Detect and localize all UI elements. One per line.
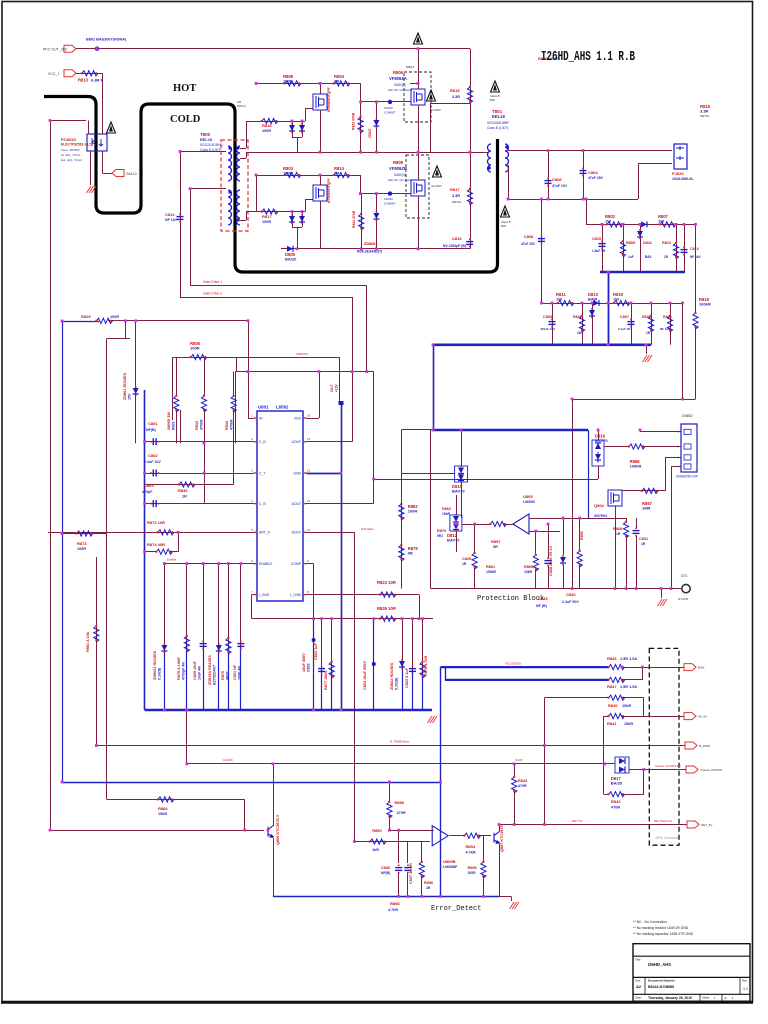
wire VCC_1 drop to optocoupler [102,73,104,134]
resistor R830 [179,482,195,487]
resistor R874 [157,549,173,554]
svg-text:KF5N50F/FQPF: KF5N50F/FQPF [327,87,331,112]
svg-text:15V: 15V [127,393,131,400]
wire T800 sec bottom pin link [238,220,246,222]
capacitor C809 hang [552,303,554,345]
svg-text:2.2R: 2.2R [551,57,559,61]
wire COMP pin [307,563,314,565]
svg-text:BZT52C4V7: BZT52C4V7 [212,665,216,685]
svg-text:I_GND: I_GND [259,593,270,597]
wire aux drop right to blue [339,357,341,401]
svg-text:0R: 0R [408,551,413,556]
resistor R881 [94,626,99,642]
resistor R814 [334,172,350,177]
warning triangle above dashed box [414,33,423,44]
blue VCC riser right [440,667,442,782]
svg-text:SA50(3): SA50(3) [394,83,406,87]
capacitor C803 pin4 [145,503,254,505]
svg-text:ZD808: ZD808 [364,242,375,246]
transistor Q807 [494,832,499,844]
diodes D801/D802 [292,121,294,137]
svg-text:C816: C816 [452,236,462,241]
wire R873 row [62,533,107,535]
wire row1 right corner down [695,224,697,313]
svg-text:HOT: HOT [173,83,196,94]
svg-text:1W: 1W [613,297,619,302]
svg-text:PJ020: PJ020 [672,171,684,176]
svg-text:R861: R861 [486,565,495,569]
wire ROUT pin feedback [307,503,374,505]
dual diode D817 [605,763,615,765]
resistor R819 [614,300,630,305]
dual diode D812 [450,515,462,531]
op-amp U805 (comparator) [513,514,529,534]
ferrite bead on gate [388,100,392,104]
blue bus drop to protection [433,345,435,430]
svg-text:AOUT: AOUT [292,440,301,444]
blue link bus1 to bus2 [608,272,610,345]
svg-text:10kR: 10kR [624,722,633,726]
svg-text:L_GND: L_GND [290,593,302,597]
svg-text:R813: R813 [662,241,671,245]
blue supply rows to B/5V [441,666,610,668]
svg-text:R804: R804 [538,56,548,61]
svg-text:SA50(3): SA50(3) [394,173,406,177]
svg-text:470R: 470R [611,806,620,810]
svg-text:OnOFF: OnOFF [223,758,233,762]
svg-text:R822 47kR: R822 47kR [352,112,356,130]
svg-text:10kR: 10kR [524,570,533,574]
svg-text:600mA: 600mA [237,104,246,108]
warning triangle upper [427,90,436,101]
ground protection [661,589,663,598]
resistor R841 row [604,716,609,718]
svg-text:DET_5V: DET_5V [701,823,712,827]
resistor R818 hang [670,303,672,345]
wire T801 secondary return [508,165,510,199]
svg-text:R894: R894 [466,844,476,849]
ground bus row1 (blue) [600,271,685,274]
svg-text:C3M08T: C3M08T [384,202,396,206]
svg-text:C807: C807 [620,315,629,319]
wire AOUT pin [307,441,353,443]
MOSFET Q803 [313,185,327,201]
svg-text:R884: R884 [158,806,168,811]
resistor R877 hang [331,619,333,669]
svg-text:R865: R865 [524,565,533,569]
dual diode D816b top [592,440,604,466]
capacitor C806 [548,151,550,199]
svg-text:** No marking capacitor 1608 X: ** No marking capacitor 1608 X7R GND [633,932,694,936]
wire upper gate row [246,121,305,123]
resistor R858 [472,553,477,569]
svg-text:BAV70: BAV70 [595,438,608,443]
connector pin B/5V [684,664,696,671]
svg-text:AOUT: AOUT [292,502,301,506]
svg-text:C828 2200 V5.1V: C828 2200 V5.1V [549,546,553,576]
svg-text:R833: R833 [195,421,199,430]
wire junctions [96,47,99,50]
svg-text:ZD822 RD15ES: ZD822 RD15ES [390,662,394,690]
svg-text:100R: 100R [283,79,293,84]
resistor R878 hang [422,619,424,669]
IC ground bus (blue) [145,709,432,712]
svg-text:100P 4R: 100P 4R [237,666,241,680]
svg-text:5.1V(B): 5.1V(B) [157,667,161,680]
zener ZD807 gate clamp [376,102,378,152]
svg-text:Error_Detect: Error_Detect [431,905,481,913]
resistor R820 hang [651,303,653,345]
svg-text:Rev: Rev [742,979,748,983]
svg-text:1R: 1R [616,532,621,536]
resistor R890 [370,839,386,844]
svg-text:GND: GND [293,471,301,475]
svg-text:R890: R890 [372,828,382,833]
svg-text:2N7002: 2N7002 [594,514,607,518]
svg-text:LM358P: LM358P [443,865,458,869]
svg-text:IN: IN [259,416,263,420]
svg-text:4.7kR: 4.7kR [388,908,398,912]
resistor R873 [77,531,93,536]
resistor R816 [262,118,278,123]
resistor R895 [481,862,486,878]
wire CN pin4 drop [671,467,673,589]
wire blue long vertical left [62,321,64,782]
wire right bottom link [572,399,696,401]
svg-text:R846: R846 [607,656,617,661]
svg-text:1MR: 1MR [642,506,651,511]
svg-text:Q807 KTC3875: Q807 KTC3875 [500,825,504,852]
svg-text:Enable: Enable [167,558,177,562]
wire Q802 drain to PFC rail [418,49,420,89]
svg-text:BA/28: BA/28 [611,781,623,786]
svg-text:R898: R898 [390,901,400,906]
capacitor C831 drop [636,518,638,528]
svg-text:C8040: C8040 [384,106,393,110]
svg-text:C833: C833 [538,596,548,601]
svg-text:R815: R815 [450,88,460,93]
svg-text:EEL16: EEL16 [200,137,213,142]
svg-text:R875 A 10kR: R875 A 10kR [177,657,181,680]
svg-text:COLD: COLD [170,114,201,125]
wire regulator row1 [586,224,696,226]
wire T801 primary left bottom [470,121,472,152]
error detect gnd bus (blue) [273,896,499,898]
svg-text:2.2uF 10V: 2.2uF 10V [144,460,161,464]
wire D816 mid to resistor R866 [604,446,630,448]
svg-text:C3M08T: C3M08T [384,111,396,115]
svg-text:AV_5V: AV_5V [698,715,707,719]
svg-text:470kR: 470kR [229,419,233,430]
wire T801 primary rail [246,152,488,154]
capacitor C836 drop [398,830,400,863]
svg-text:10: 10 [307,528,311,532]
svg-text:VF806ZB: VF806ZB [389,166,407,171]
wire upper rail corner to gate feed [360,83,362,102]
svg-text:R840: R840 [608,703,618,708]
svg-text:R_PWM(3kxx): R_PWM(3kxx) [390,740,409,744]
warning triangle near opto [107,122,116,133]
dual diode D816 [401,473,454,475]
svg-text:R805: R805 [626,241,635,245]
svg-text:1R: 1R [182,495,187,499]
wire PFC vertical drop [470,49,472,153]
svg-text:R895: R895 [468,866,477,870]
svg-text:3.3R: 3.3R [452,194,460,198]
ground stub row2 [646,345,648,354]
connector pin B_PWM [685,742,697,749]
wire left rail resistor chain joins [125,321,127,339]
svg-text:R842: R842 [611,799,621,804]
wire blue bus right drop [588,430,590,518]
wire GND blue to bus [307,473,342,475]
svg-text:47uF 25V: 47uF 25V [588,176,604,180]
terminal GT1 [668,588,681,590]
svg-text:B/5V: B/5V [698,666,705,670]
svg-text:+12V: +12V [335,384,339,392]
wire T801 left lower [430,103,470,105]
svg-text:R830: R830 [178,488,188,493]
capacitor C823 hang [321,619,323,670]
resistor R840 [609,695,625,700]
resistor R813 [82,71,98,76]
resistor R811 [558,300,574,305]
svg-text:R829: R829 [81,314,91,319]
resistor R894 [465,833,481,838]
svg-text:0R: 0R [493,545,498,549]
svg-text:6.8R F: 6.8R F [91,78,104,83]
diode D810 [641,221,647,227]
wire lower drain rail [256,175,360,177]
wire opamp inputs [529,518,618,520]
wire PFC drop joins rails [470,121,472,249]
ground protection block [658,599,668,606]
diode D813 [593,300,599,306]
svg-text:160kR: 160kR [699,302,711,307]
svg-text:EEL19: EEL19 [492,114,505,119]
lower second MOSFET Q804 [411,180,425,196]
wire aux supply row [173,357,340,359]
svg-text:10uF 450V: 10uF 450V [302,653,306,672]
op-amp U805B [432,826,448,846]
svg-text:LM393: LM393 [523,500,535,504]
svg-text:C820 10uF: C820 10uF [193,660,197,680]
svg-text:METAL: METAL [452,200,462,204]
svg-text:BN44-DCBBB: BN44-DCBBB [648,984,674,989]
svg-text:GT1: GT1 [681,574,687,578]
svg-text:100R: 100R [468,871,477,875]
HOT/COLD isolation barrier thick line [44,97,498,273]
wire opto emitter to ground [90,151,92,185]
resistor R806b [191,355,207,360]
resistor R823 [380,592,396,597]
wire I_GND right row [307,594,420,596]
svg-text:4R87: 4R87 [225,671,229,680]
svg-text:1R: 1R [664,255,669,259]
dashed box upper SMD pair [404,72,431,122]
zener ZD806 drop [563,518,565,555]
transformer T800 right coil [237,146,240,181]
title block [633,944,750,1002]
capacitor C807 hang [631,303,633,345]
svg-text:NF 1kV: NF 1kV [165,218,178,222]
wire Q802 source [418,105,420,152]
svg-text:0.1uF 4R: 0.1uF 4R [618,327,631,331]
wire R873 net drop [96,557,98,746]
capacitor C801 pin2 [145,441,254,443]
wire Q803 source to return rail [320,201,322,249]
svg-text:VDD: VDD [294,416,302,420]
svg-text:R886: R886 [394,800,404,805]
ground opto [87,186,97,193]
wire I_GND left drop [252,594,254,596]
resistor R846 [609,665,625,670]
capacitor C815 hang [602,224,604,272]
capacitor C819 hang [684,224,686,272]
svg-text:3.3R: 3.3R [452,95,460,99]
transformer T800 dashed box [221,140,248,231]
wire Q804 gate feed [360,193,411,195]
svg-text:Inverter ON/OFF: Inverter ON/OFF [700,768,723,772]
svg-text:U805: U805 [523,494,533,499]
resistor R807 [660,222,676,227]
resistor R805 hang [623,224,625,272]
diodes D803/D804 [292,212,294,227]
resistor R858 drop [474,524,476,552]
resistor R822 divider vertical [360,102,362,152]
svg-text:470R: 470R [518,784,527,788]
svg-text:12: 12 [307,469,311,473]
svg-text:R879: R879 [437,529,446,533]
svg-text:470kR: 470kR [199,419,203,430]
wire lower row [252,618,433,620]
resistor R802 [607,222,623,227]
wire Q805 drain chain [622,490,665,492]
zener ZD801 [135,321,137,388]
svg-text:R824 47kR: R824 47kR [352,210,356,228]
svg-text:R873: R873 [77,541,87,546]
warning triangle lower [433,166,442,177]
wire R841 feed vertical [603,716,605,794]
svg-text:R816: R816 [262,123,272,128]
resistor R829 [97,318,113,323]
resistor R875 hang [186,564,188,643]
connector VCC_1 [64,70,76,77]
svg-text:METAL: METAL [700,114,710,118]
svg-text:SMAW250-04P: SMAW250-04P [676,475,698,479]
svg-text:** No marking resistor 1608 1R: ** No marking resistor 1608 1R GND [633,926,689,930]
32pin connector dashed box [649,648,679,845]
svg-text:100R: 100R [190,346,200,351]
svg-text:NF(B): NF(B) [381,871,390,875]
resistor R823b divider vertical [361,194,363,249]
transformer T801 left coil [488,144,491,172]
ground error detect [499,896,511,898]
svg-text:Date:: Date: [635,996,642,1000]
svg-text:100R: 100R [262,129,271,133]
svg-text:C819: C819 [690,247,699,251]
resistor R847 [609,677,625,682]
svg-text:C831: C831 [639,537,648,541]
zener ZD808 gate clamp [376,194,378,249]
wire Q807 emitter [499,844,501,897]
resistor R886 from VCC to plus input [389,782,391,802]
wire gate row to Q803 gate [305,200,307,212]
svg-text:** NC - No Connection: ** NC - No Connection [633,920,667,924]
svg-text:1.5uF 4R: 1.5uF 4R [592,249,606,253]
resistor R815 on PFC drop [467,87,472,103]
resistor R808 [285,81,301,86]
diode D814 hang [592,303,594,345]
svg-text:100kR: 100kR [630,464,642,469]
svg-text:4700pF 4R: 4700pF 4R [181,662,185,680]
wire Q801 source to primary rail [320,110,322,152]
svg-text:Soft Start: Soft Start [361,527,374,531]
svg-text:U805B: U805B [443,859,456,864]
svg-text:R857: R857 [491,539,501,544]
svg-text:C823 1uF: C823 1uF [314,642,318,660]
svg-text:Class B (130T): Class B (130T) [487,126,508,130]
svg-text:Sheet: Sheet [702,996,710,1000]
svg-text:1.1: 1.1 [743,987,748,991]
svg-text:R896: R896 [424,881,433,885]
svg-text:32Pin Connector: 32Pin Connector [655,836,680,840]
svg-text:DET 5V(2.5v): DET 5V(2.5v) [654,819,672,823]
svg-text:C829: C829 [462,557,471,561]
ground error detect [510,902,520,909]
resistor R804 [334,81,350,86]
resistor R821 hang [582,303,584,345]
blue vertical center [341,404,343,710]
svg-text:3900R 3W: 3900R 3W [167,412,171,430]
resistor R812 hang [676,224,678,272]
svg-text:R806: R806 [393,70,404,75]
resistor R830 row [145,484,234,486]
svg-text:C825 0.1uF: C825 0.1uF [405,667,409,688]
svg-text:B801 BAS3007(NONA): B801 BAS3007(NONA) [86,38,127,42]
wire gate drive 1 row [190,285,367,287]
capacitor C837 drop [407,842,409,863]
svg-text:R878 4.7kR: R878 4.7kR [424,655,428,676]
wire OnOff row [187,763,605,765]
capacitor C808 feed vertical [541,199,543,303]
svg-text:BAV70: BAV70 [452,489,465,494]
svg-text:C_B: C_B [259,502,266,506]
wire opamp output [450,835,466,837]
wire gate drive feed vertical 2 [190,189,192,286]
svg-text:Iav/100V: Iav/100V [430,108,441,112]
svg-text:R826 10R: R826 10R [377,606,396,611]
wire Q802 gate feed [361,101,411,103]
svg-text:100kR: 100kR [486,570,497,574]
MOSFET Q805 [608,490,622,506]
svg-text:3.3R: 3.3R [700,109,709,114]
capacitor C822 hang row618 [313,619,315,710]
svg-text:R877 10kR: R877 10kR [324,671,328,690]
wire drop to protection block [572,399,574,589]
svg-text:5.1V(B): 5.1V(B) [394,677,398,690]
svg-text:Gate Drive 2: Gate Drive 2 [203,292,222,296]
resistor R859 [577,551,582,567]
capacitor C814 on gate drive 1 [177,216,184,218]
svg-text:1R: 1R [462,562,467,566]
resistor R803 [285,172,301,177]
wire lower rail corner to gate feed [360,175,362,194]
wire Q801 drain [320,83,322,94]
transformer T801 right coil [505,144,509,172]
ferrite bead on gate lower [388,191,392,195]
svg-text:Size: Size [635,979,641,983]
